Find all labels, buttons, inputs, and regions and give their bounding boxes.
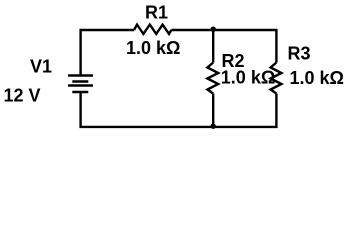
resistor R3	[271, 63, 282, 94]
svg-text:R3: R3	[288, 44, 311, 64]
wire top left + left wire (V1+ to R1)	[81, 30, 134, 76]
wire R2 branch bottom	[212, 94, 214, 129]
battery V1 plate long	[68, 84, 93, 86]
svg-text:R1: R1	[145, 3, 168, 23]
wire left bottom + bottom wire + R3 branch bottom	[81, 92, 277, 127]
svg-text:V1: V1	[30, 56, 52, 76]
wire top right (node A: R1 to R2/R3) + R3 branch top	[171, 30, 276, 63]
wire R2 branch top	[212, 29, 214, 63]
junction dot bottom	[211, 124, 216, 129]
svg-text:12 V: 12 V	[4, 85, 41, 105]
svg-text:1.0 kΩ: 1.0 kΩ	[221, 68, 275, 88]
resistor R2	[207, 63, 218, 94]
battery V1 plate short	[72, 80, 88, 82]
svg-text:1.0 kΩ: 1.0 kΩ	[290, 68, 344, 88]
junction dot top (node A)	[211, 27, 216, 32]
battery V1 plate short bottom	[72, 91, 88, 93]
battery V1 plate long top	[68, 74, 93, 76]
resistor R1	[134, 25, 171, 34]
svg-text:1.0 kΩ: 1.0 kΩ	[126, 38, 180, 58]
